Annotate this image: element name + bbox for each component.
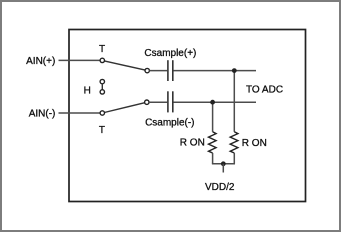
wire AIN(+) lead: [59, 59, 101, 61]
wire R right bottom lead: [233, 153, 235, 164]
switch T1 pivot contact: [100, 58, 104, 62]
switch T1 throw contact: [145, 68, 149, 72]
svg-text:VDD/2: VDD/2: [205, 182, 235, 193]
svg-text:AIN(+): AIN(+): [26, 56, 55, 67]
switch T2 throw contact: [145, 100, 149, 104]
wire bottom join: [212, 163, 235, 165]
resistor R ON right: [230, 132, 238, 153]
svg-text:R ON: R ON: [180, 138, 205, 149]
svg-text:TO ADC: TO ADC: [246, 85, 283, 96]
node dot bottom: [210, 100, 215, 105]
switch H top contact: [100, 79, 104, 83]
node dot VDD: [221, 161, 226, 166]
capacitor Csample(-) plates: [167, 91, 169, 112]
svg-text:T: T: [99, 44, 105, 55]
svg-text:Csample(-): Csample(-): [145, 117, 194, 128]
wire right vertical (top node to R right): [233, 71, 235, 132]
svg-text:Csample(+): Csample(+): [144, 48, 196, 59]
wire switch to C1: [149, 70, 167, 72]
wire C2 to ADC: [174, 101, 257, 103]
svg-text:H: H: [84, 86, 91, 97]
resistor R ON left: [209, 132, 217, 153]
switch H bottom contact: [100, 90, 104, 94]
svg-text:T: T: [99, 125, 105, 136]
capacitor Csample(+) plates: [167, 60, 169, 81]
wire switch to C2: [149, 101, 167, 103]
switch T1 arm (top): [104, 61, 145, 70]
svg-text:AIN(-): AIN(-): [29, 108, 56, 119]
svg-text:R ON: R ON: [242, 138, 267, 149]
wire left vertical (bottom node to R left): [212, 102, 214, 132]
switch T2 pivot contact: [100, 111, 104, 115]
node dot top: [232, 68, 237, 73]
wire C1 to ADC: [174, 70, 257, 72]
wire AIN(-) lead: [59, 112, 101, 114]
switch H link: [101, 84, 103, 90]
wire R left bottom lead: [212, 153, 214, 164]
wire VDD stub: [222, 164, 224, 173]
switch T2 arm (bottom): [104, 103, 145, 113]
inner schematic box: [69, 30, 306, 202]
